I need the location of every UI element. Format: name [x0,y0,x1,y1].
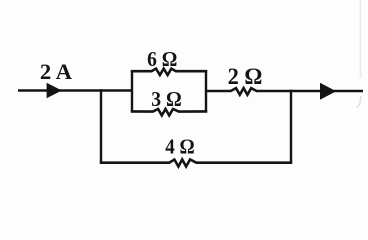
wire: left input [18,89,133,91]
scan artifact faint hook [357,96,361,108]
node B (junction to bottom branch) [290,90,292,164]
svg-text:2 A: 2 A [40,59,72,84]
resistor R1 6Ω (top of parallel box) [131,69,207,75]
wire: parallel box right edge [205,70,207,113]
current arrow (input) [47,83,62,99]
svg-text:6 Ω: 6 Ω [147,47,177,71]
wire: parallel box left edge [131,70,133,113]
svg-text:3 Ω: 3 Ω [151,87,182,111]
node A (junction to bottom branch) [100,89,102,164]
svg-text:4 Ω: 4 Ω [165,135,194,159]
resistor R2 3Ω (bottom of parallel box) [131,109,207,115]
wire: bottom branch with resistor R4 4Ω [100,160,292,167]
svg-text:2 Ω: 2 Ω [228,64,263,89]
current arrow (output) [320,83,336,100]
wire: output with resistor R3 2Ω [206,88,363,95]
scan artifact faint line [360,0,362,78]
